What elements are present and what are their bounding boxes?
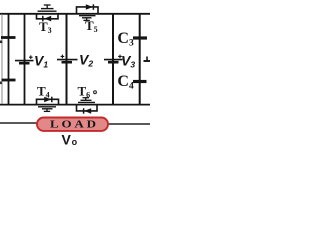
wire load left: [0, 122, 38, 124]
svg-text:T5: T5: [85, 18, 98, 34]
battery V2: [57, 55, 78, 63]
wire rail V2: [66, 14, 68, 105]
transistor T4: [37, 97, 59, 112]
capacitor C2 plate: [0, 80, 16, 84]
battery V1: [15, 55, 34, 63]
svg-text:LOAD: LOAD: [50, 118, 99, 131]
svg-text:C3: C3: [117, 30, 134, 48]
transistor T3: [37, 5, 59, 21]
wire rail V3: [112, 14, 114, 105]
transistor T6: [77, 98, 98, 114]
wire top rail: [0, 13, 150, 15]
svg-text:Vo: Vo: [62, 131, 78, 147]
svg-text:V2: V2: [79, 52, 93, 69]
svg-text:V1: V1: [34, 53, 48, 70]
wire bottom rail: [0, 104, 150, 106]
svg-text:V3: V3: [121, 53, 135, 70]
wire rail V1: [24, 14, 26, 105]
transistor T5: [77, 4, 99, 20]
wire rail C1C2: [8, 14, 10, 105]
capacitor C1 plate: [0, 38, 16, 44]
svg-text:T4: T4: [37, 84, 50, 100]
wire left rail cropped: [1, 14, 3, 104]
battery V3: [104, 55, 123, 63]
wire rail C3C4: [139, 14, 141, 105]
svg-text:C4: C4: [117, 73, 134, 91]
load: [37, 118, 108, 131]
svg-text:T3: T3: [39, 19, 52, 35]
svg-text:T6: T6: [78, 84, 91, 100]
wire load right: [107, 123, 150, 125]
wire right stub: [144, 57, 151, 62]
capacitor C4: [133, 80, 147, 83]
capacitor C3: [133, 36, 147, 39]
node mark near T6: [94, 91, 97, 94]
